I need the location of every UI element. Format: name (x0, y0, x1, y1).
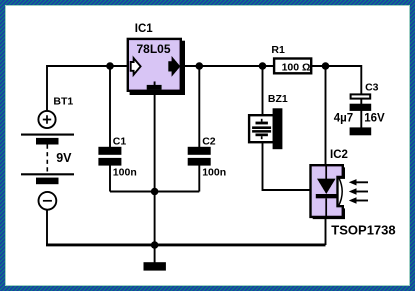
wire R1 right dot to IC2 top (325, 66, 327, 165)
minus terminal circle (39, 192, 57, 210)
border frame (blue/teal patterned) (0, 0, 415, 5)
svg-text:BT1: BT1 (53, 95, 73, 107)
IR arrow 1 (356, 181, 368, 183)
svg-text:4µ7: 4µ7 (334, 113, 353, 125)
svg-text:100n: 100n (113, 166, 137, 178)
sound bar (273, 108, 283, 149)
svg-text:C2: C2 (202, 135, 216, 147)
svg-text:C1: C1 (113, 135, 127, 147)
wire C3 mid (360, 99, 362, 104)
input arrow (hollow) (131, 58, 141, 75)
svg-text:R1: R1 (271, 44, 285, 56)
ground bar C3 (350, 127, 372, 135)
negative plate (350, 104, 372, 111)
buzzer BZ1 (249, 93, 288, 149)
svg-text:C3: C3 (365, 82, 379, 94)
IC2 body (C-shape with lens notch) (311, 165, 343, 217)
svg-text:IC1: IC1 (135, 23, 154, 35)
wire C1 bottom (109, 165, 111, 192)
svg-text:16V: 16V (364, 113, 385, 125)
output arrow (filled) (169, 57, 180, 75)
svg-text:78L05: 78L05 (137, 42, 171, 56)
IC1 body (128, 39, 181, 91)
wire IC2 bottom (325, 217, 327, 245)
plus terminal circle (38, 111, 55, 128)
wire C1 top (109, 66, 111, 148)
wire BZ1 bottom to IC2 left (263, 142, 311, 190)
positive plate (hollow) (351, 94, 371, 98)
svg-text:9V: 9V (56, 151, 72, 165)
svg-text:BZ1: BZ1 (268, 93, 288, 105)
dashed cell link (46, 145, 48, 174)
plate short 2 (36, 178, 59, 185)
svg-text:TSOP1738: TSOP1738 (331, 223, 395, 238)
IR receiver IC2 TSOP1738 (311, 149, 396, 238)
wire top rail (47, 65, 361, 67)
junction dot C1 top (106, 62, 114, 70)
junction dot R1 left (259, 62, 267, 70)
wire C1-C2 bottom link (110, 191, 199, 193)
junction dot R1 right (322, 62, 330, 70)
IR arrow 3 (356, 200, 368, 202)
photodiode (325, 166, 327, 179)
ground pin mark (154, 82, 156, 86)
IC2 shadow (313, 167, 345, 219)
junction dot C1C2-IC1 (151, 188, 159, 196)
piezo element (261, 119, 263, 122)
op IC1 regulator 78L05 (128, 23, 185, 95)
plate long 2 (21, 173, 74, 175)
svg-text:100 Ω: 100 Ω (282, 62, 311, 74)
ground bar main (144, 262, 166, 270)
wire C2 top (198, 66, 200, 148)
IC1 shadow (130, 41, 185, 95)
wire battery bottom to rail (46, 210, 48, 246)
capacitor C3 (electrolytic) (334, 82, 385, 136)
capacitor C1 (98, 135, 136, 178)
wire C2 bottom (198, 165, 200, 192)
wire C3 drop (360, 65, 362, 94)
svg-text:IC2: IC2 (330, 149, 348, 161)
IR arrow 2 (356, 191, 368, 193)
plate short 1 (36, 138, 59, 145)
junction dot rail-ground (151, 241, 159, 249)
plate long 1 (21, 134, 74, 136)
wire bottom rail (46, 243, 326, 246)
wire BZ1 top (262, 66, 264, 115)
wire left branch top (battery +) (46, 65, 48, 111)
lens (339, 178, 343, 206)
capacitor C2 (188, 135, 226, 178)
svg-text:100n: 100n (202, 166, 226, 178)
junction dot C2 top (196, 62, 204, 70)
battery BT1 (21, 95, 74, 209)
wire IC1 ground down (154, 92, 156, 245)
wire C3 to ground bar (360, 110, 362, 128)
resistor R1 (271, 44, 311, 74)
wire ground stub (154, 245, 156, 263)
